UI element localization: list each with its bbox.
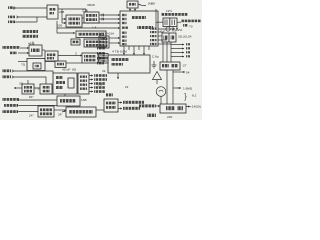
wire [58,8,86,10]
block 29A [55,61,66,68]
label figure caption [147,114,156,117]
wire [134,8,136,11]
block tone controls [84,39,106,47]
label horizontal centering [123,101,144,104]
label 1.6M resistor [174,86,197,101]
node audio out label [2,98,19,101]
wire output arrows [171,43,190,57]
block delay line filter [27,59,45,71]
wire [14,87,22,89]
wire [61,9,63,23]
wire [166,70,168,104]
label 12 percent [158,28,182,33]
wire [156,80,158,84]
block degaussing power unit [160,104,186,113]
wire [176,27,178,31]
wire [155,9,157,30]
wire [27,80,29,84]
wire [160,96,162,104]
block burst gate [40,84,52,94]
wire [85,9,87,12]
wire [138,4,146,6]
svg-text:1.8: 1.8 [92,26,97,30]
wire [158,39,167,41]
wire [45,61,55,63]
wire [19,111,38,113]
svg-text:14B: 14B [81,98,87,102]
label 7 [106,93,113,96]
block tuner T [47,5,58,19]
node anode circle [166,27,170,31]
wire [170,42,172,62]
node Tnl input [10,52,17,55]
node Cbf input [8,21,37,24]
wire [18,16,47,18]
block RGB matrix [53,73,77,94]
op-amp U1 jungle IC [120,11,158,46]
svg-text:12½: 12½ [166,9,172,13]
wire [34,87,40,89]
block SECAM unit [162,33,176,42]
svg-text:+14(50): +14(50) [190,105,201,109]
svg-text:[4]88: [4]88 [148,2,155,6]
wire [82,17,84,19]
wire [42,49,45,51]
svg-text:1.6MΩ: 1.6MΩ [183,86,193,90]
block remote sensor [104,99,118,112]
block regulator [57,96,80,106]
svg-text:38!28: 38!28 [87,3,95,7]
node sound input label [2,46,20,49]
svg-text:32: 32 [102,69,106,73]
block switching power supply [66,107,96,117]
block 294 [71,39,80,45]
block control interface [38,106,54,117]
wire sound takeoff [57,28,75,33]
block chroma decoder [84,12,99,23]
wire RGB outputs [89,74,107,93]
wire [172,70,174,104]
block deflection processor [108,55,150,73]
node video input 1 [8,6,15,9]
node Cb input [8,16,18,19]
svg-text:-27: -27 [182,64,187,68]
label AC mains [139,104,160,107]
svg-text:24': 24' [58,113,62,117]
wire [18,61,27,63]
wire [14,71,53,73]
node Y input [2,69,14,72]
label CRT text [181,20,201,29]
block video amp [82,53,98,63]
wire [52,87,53,89]
svg-text:C.8μ: C.8μ [152,55,159,59]
wire [14,77,46,84]
label 24 tick [58,111,66,117]
block video IF amp [66,15,82,27]
svg-text:}: } [184,91,187,101]
wire [118,108,122,110]
wire [109,42,120,44]
wire [173,71,185,73]
wire [36,17,38,22]
wire [64,94,66,96]
block chroma trap [22,84,34,94]
ground [152,61,157,68]
svg-text:4 T.B 0.5M: 4 T.B 0.5M [112,50,127,54]
wire [99,14,120,16]
svg-text:8.2: 8.2 [192,93,197,97]
node L input [2,75,14,78]
wire [62,18,66,20]
svg-text:24°: 24° [29,113,34,117]
node CRT circle [156,87,166,97]
wire [99,18,120,20]
capacitor C1 ticks [102,14,104,17]
svg-text:45°μF 8Ω: 45°μF 8Ω [62,67,77,71]
wire [162,42,164,62]
wire [166,42,168,62]
svg-text:1.8: 1.8 [172,29,177,33]
wire [58,55,82,57]
node volume label [2,110,18,113]
wire [172,27,174,32]
wire [15,7,47,9]
wire [57,21,120,28]
block sound detector [45,51,58,61]
label reset [123,107,140,110]
svg-text:21: 21 [125,85,129,89]
capacitor C2 ticks [102,18,104,21]
block width coil [160,62,180,70]
wire [96,109,104,111]
label sound output caption [22,30,38,38]
svg-text:70: 70 [189,25,193,29]
wire [109,37,120,39]
wire [20,99,57,101]
wire [66,62,82,64]
wire [20,47,29,49]
wire IC bottom bus [124,46,149,55]
wire [18,52,29,54]
wire [158,35,162,37]
transistor Q1 symbol triangle [153,72,162,80]
wire [117,73,119,79]
svg-text:3Ω,3Ω,3A: 3Ω,3Ω,3A [178,35,193,39]
block sound IF [29,45,42,56]
node pin labels left [97,47,105,64]
block out 2 [99,59,108,63]
svg-text:230: 230 [57,24,62,28]
svg-text:7.8: 7.8 [35,87,40,91]
wire [54,109,66,111]
block RGB drivers [78,73,89,94]
wire [129,8,131,11]
wire [158,31,163,33]
wire [118,102,122,104]
block sound power amp [76,31,106,38]
wire [67,106,69,107]
block AFT [127,1,138,8]
svg-text:7Ω: 7Ω [21,63,26,67]
label flyback caption [161,13,188,16]
svg-text:54: 54 [186,71,190,75]
wire [158,43,171,45]
wire [32,42,34,46]
wire [82,22,120,24]
wire [19,104,57,106]
svg-text:84°: 84° [29,95,34,99]
svg-text:220: 220 [167,115,172,119]
block 3.58 crystal unit [99,36,109,48]
svg-text:3Ω: 3Ω [19,82,24,86]
label 145V [186,105,201,109]
wire [62,22,66,24]
block out 1 [99,54,108,58]
transformer T1 flyback [156,18,181,27]
node PI signal label [4,104,18,107]
